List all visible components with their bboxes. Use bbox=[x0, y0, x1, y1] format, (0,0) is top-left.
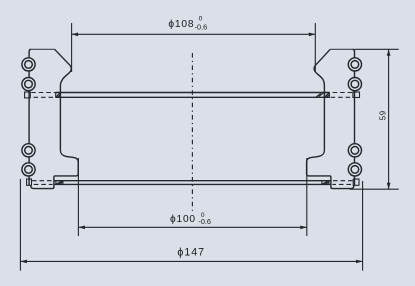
bolt hole circles right column bbox=[348, 58, 361, 176]
lower left hidden web dashes bbox=[32, 181, 53, 185]
arrow phi100 right bbox=[300, 226, 307, 230]
arrow phi108 right bbox=[309, 33, 316, 37]
arrow phi147 right bbox=[356, 260, 363, 264]
wire: right bottom plate solid bottom edge bbox=[333, 185, 354, 188]
svg-text:59: 59 bbox=[378, 110, 387, 120]
hole circle R4 bbox=[348, 163, 361, 176]
arrow phi147 left bbox=[20, 260, 27, 264]
svg-text:-0.6: -0.6 bbox=[195, 22, 208, 31]
dim phi108 left extension line bbox=[71, 23, 73, 72]
dim phi100 right extension line bbox=[306, 158, 308, 236]
wire: right upper ogee and bore wall bbox=[314, 65, 324, 150]
arrow 59 top bbox=[387, 49, 391, 56]
arrow 59 bottom bbox=[387, 183, 391, 190]
wire: left bottom plate solid bottom edge bbox=[31, 185, 53, 188]
dim phi108 dimension line bbox=[72, 33, 316, 35]
wire: right outer edge bbox=[352, 49, 354, 185]
label phi100 with tolerance bbox=[170, 212, 211, 226]
dim 59 top extension line bbox=[355, 48, 399, 50]
wire: left upper ogee and bore wall bbox=[60, 65, 71, 150]
right flange profile bbox=[307, 49, 355, 188]
dim phi147 left extension line bbox=[19, 179, 21, 271]
wire: left top edge bbox=[31, 48, 54, 50]
wire: upper web top line bbox=[56, 92, 330, 94]
upper left stud square bbox=[25, 92, 31, 98]
label phi108 with tolerance bbox=[168, 16, 207, 32]
lower left stud square bbox=[27, 179, 32, 185]
upper left hatched section square bbox=[56, 93, 61, 98]
hole circle L2 bbox=[22, 78, 35, 91]
hole circle R1 bbox=[348, 58, 361, 71]
wire: right lower ogee, inner wall, inner floor and step bbox=[307, 150, 333, 188]
hole circle R2 bbox=[348, 78, 361, 91]
svg-text:ϕ108: ϕ108 bbox=[168, 19, 194, 30]
lower right hatched section square bbox=[322, 181, 329, 185]
arrowheads bbox=[20, 33, 390, 264]
hole circle L3 bbox=[22, 144, 35, 157]
dim phi100 left extension line bbox=[77, 158, 79, 236]
bolt hole circles left column bbox=[22, 58, 35, 176]
arrow phi108 left bbox=[72, 33, 79, 37]
wire: right chamfer bbox=[315, 49, 330, 65]
svg-text:ϕ100: ϕ100 bbox=[170, 214, 196, 225]
wire: upper web bottom line bbox=[56, 96, 330, 98]
upper right hatched section square bbox=[316, 93, 329, 98]
svg-text:ϕ147: ϕ147 bbox=[177, 246, 205, 258]
centerline (dash-dot) bbox=[191, 53, 193, 211]
lower right hidden web dashes bbox=[332, 181, 353, 185]
upper left hidden web dashes bbox=[31, 93, 55, 98]
dim phi147 right extension line bbox=[362, 181, 364, 271]
hole circle R3 bbox=[348, 144, 361, 157]
hole circle L4 bbox=[22, 163, 35, 176]
wire: left outer edge bbox=[29, 49, 31, 185]
upper right stud square bbox=[353, 92, 360, 98]
wire: left chamfer bbox=[55, 49, 70, 65]
arrow phi100 left bbox=[78, 226, 85, 230]
left flange profile bbox=[29, 49, 78, 188]
wire: lower web top line bbox=[54, 180, 331, 182]
dim phi108 right extension line bbox=[314, 23, 316, 72]
dim phi100 dimension line bbox=[78, 226, 306, 228]
wire: left lower ogee, inner wall, inner floor and step bbox=[52, 150, 78, 188]
dim 59 dimension line bbox=[388, 49, 390, 189]
svg-text:-0.6: -0.6 bbox=[198, 217, 211, 226]
lower left hatched section square bbox=[56, 181, 63, 185]
hole circle L1 bbox=[22, 58, 35, 71]
dim 59 bottom extension line bbox=[350, 188, 399, 190]
dim phi147 dimension line bbox=[20, 260, 362, 262]
lower right stud square bbox=[353, 179, 359, 185]
upper right hidden web dashes bbox=[330, 93, 353, 98]
wire: right top edge bbox=[330, 48, 352, 50]
wire: lower web bottom line bbox=[54, 183, 331, 185]
